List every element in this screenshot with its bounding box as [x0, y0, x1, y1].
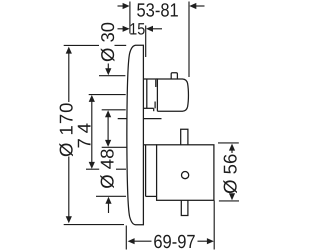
hidden edge y=118.6	[118, 118, 127, 120]
74 top arrowhead (up)	[89, 95, 95, 102]
dim 74 ext bottom	[86, 168, 99, 170]
dim O48 ext top	[102, 146, 127, 148]
lower collar	[145, 145, 147, 197]
O48 bottom arrowhead (up)	[105, 197, 111, 204]
svg-text:Ø 56: Ø 56	[220, 154, 241, 194]
O56 bottom arrowhead (down)	[229, 193, 235, 200]
dim 53-81 extension right	[188, 2, 190, 78]
dim O56 ext top	[218, 142, 239, 144]
dim O48 ext bottom	[96, 195, 126, 197]
sleeve step	[153, 108, 155, 111]
dim O30 shaft top	[107, 64, 109, 70]
screw circle	[182, 172, 189, 179]
sleeve left vertical	[146, 79, 148, 108]
sleeve stub top	[155, 80, 157, 87]
dim O56 line	[231, 149, 233, 153]
O56 top arrowhead (up)	[229, 144, 235, 151]
dim 74 line	[91, 101, 93, 163]
dim O170 ext bottom	[64, 224, 124, 226]
15 left arrowhead	[123, 26, 130, 32]
box bottom tab	[181, 200, 188, 215]
shared shaft O30-O48	[107, 117, 109, 140]
74 bottom arrowhead (down)	[89, 162, 95, 169]
O48 top arrowhead (down)	[105, 140, 111, 147]
dim O30 ext top	[99, 75, 125, 77]
dim 69-97 ext left	[125, 226, 127, 250]
escutcheon plate (side view)	[127, 45, 144, 225]
dim 74 ext top	[89, 94, 126, 96]
dim 69-97 line	[133, 240, 152, 242]
69-97 left arrowhead	[128, 238, 135, 244]
dim O56 ext bottom	[219, 200, 239, 202]
handle tab	[171, 73, 177, 79]
dim 15 arrow shafts	[118, 28, 124, 30]
svg-text:Ø 48: Ø 48	[97, 149, 118, 189]
O30 bottom arrowhead (up)	[105, 110, 111, 117]
svg-text:69-97: 69-97	[153, 232, 195, 250]
dim 15 extension right	[145, 26, 147, 58]
dim O170 ext top	[64, 44, 99, 46]
sleeve stub bottom	[154, 102, 156, 109]
69-97 right arrowhead	[207, 238, 214, 244]
O170 top arrowhead (up)	[66, 47, 72, 54]
arrowheads	[66, 3, 235, 244]
53-81 left arrowhead	[123, 3, 130, 9]
sleeve bottom edge	[143, 107, 153, 109]
sleeve top edge	[143, 78, 157, 80]
svg-text:Ø 30: Ø 30	[97, 22, 118, 62]
box top tab	[181, 129, 188, 145]
dim O30 ext bottom	[102, 109, 126, 111]
valve box	[157, 145, 214, 201]
dim 53-81 extension left	[129, 2, 131, 34]
handle knob	[157, 79, 188, 111]
dim O48 shaft bottom	[108, 204, 110, 214]
53-81 right arrowhead	[189, 3, 196, 9]
dim O170 line	[68, 53, 70, 103]
O30 top arrowhead (down)	[105, 68, 111, 75]
O170 bottom arrowhead (down)	[66, 216, 72, 223]
svg-text:15: 15	[129, 20, 145, 38]
dim 53-81 arrow shafts	[118, 5, 124, 7]
dim 69-97 ext right	[213, 201, 215, 250]
svg-text:74: 74	[74, 118, 95, 149]
15 right arrowhead	[146, 26, 153, 32]
svg-text:53-81: 53-81	[136, 0, 178, 21]
